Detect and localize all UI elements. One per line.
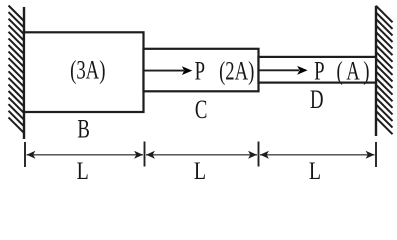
svg-text:P: P [195, 57, 205, 86]
svg-text:P: P [314, 57, 324, 86]
svg-text:D: D [310, 85, 324, 114]
svg-text:L: L [309, 157, 321, 185]
svg-text:(2A): (2A) [219, 57, 254, 86]
svg-text:L: L [194, 157, 206, 185]
svg-text:L: L [77, 157, 89, 185]
svg-text:C: C [195, 95, 207, 124]
svg-text:B: B [77, 115, 89, 144]
svg-text:(3A): (3A) [70, 55, 105, 84]
svg-text:(A): (A) [337, 57, 373, 86]
